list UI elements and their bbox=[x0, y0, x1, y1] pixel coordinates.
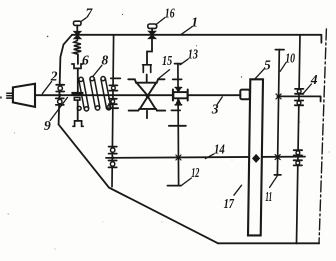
label 15 bbox=[162, 53, 172, 68]
leader of label 11 bbox=[270, 176, 278, 188]
bearing shaft II above shaft IV bbox=[109, 147, 117, 154]
pivot of rod 16 on casing bbox=[148, 31, 155, 38]
knob 7 bbox=[74, 21, 82, 31]
label 10 bbox=[285, 51, 295, 66]
junction shaft IV / shaft II bbox=[111, 156, 114, 159]
bearing shaft II below shaft IV bbox=[109, 161, 117, 168]
svg-text:14: 14 bbox=[214, 142, 225, 157]
bottom tick shaft V bbox=[274, 174, 281, 176]
spring 7 bbox=[74, 39, 82, 54]
tick top shaft III bbox=[175, 63, 182, 65]
bearing shaft VI below shaft IV bbox=[294, 160, 302, 165]
shaft II vertical left bbox=[112, 35, 114, 187]
leader of label 9 bbox=[50, 97, 67, 120]
clutch junction dot bbox=[146, 94, 150, 98]
clutch block on shaft III bbox=[173, 88, 188, 105]
casing top edge bbox=[72, 35, 321, 43]
rod to reverse fork bbox=[77, 100, 79, 121]
bottom tick shaft III bbox=[168, 185, 182, 187]
shaft VI vertical right bbox=[297, 35, 301, 244]
svg-text:10: 10 bbox=[285, 51, 295, 66]
label 4 bbox=[310, 72, 318, 87]
top bar shaft V bbox=[275, 49, 284, 51]
label 17 bbox=[224, 196, 235, 211]
slider block on shaft I bbox=[72, 93, 83, 101]
leader of label 10 bbox=[280, 63, 286, 72]
leader of label 12 bbox=[182, 178, 192, 185]
leader of label 15 bbox=[158, 70, 169, 79]
fork 6 bbox=[72, 64, 83, 68]
junction shaft IV / shaft III bbox=[176, 155, 181, 160]
label 14 bbox=[214, 142, 225, 157]
rod fork 6 to slider bbox=[77, 68, 79, 92]
upper gear line right bbox=[278, 96, 321, 101]
belt link B2 bbox=[90, 77, 100, 111]
label 7 bbox=[86, 6, 94, 21]
svg-text:16: 16 bbox=[165, 5, 175, 20]
svg-text:6: 6 bbox=[82, 53, 89, 68]
bearing shaft VI above shaft IV bbox=[294, 150, 302, 155]
label 12 bbox=[191, 165, 199, 180]
leader of label 2 bbox=[42, 82, 51, 94]
label 9 bbox=[44, 118, 51, 133]
motor M bbox=[6, 84, 35, 107]
label 1 bbox=[191, 14, 198, 29]
svg-text:7: 7 bbox=[86, 6, 94, 21]
junction shaft I / wall bbox=[59, 94, 62, 97]
leader of label 13 bbox=[180, 59, 188, 65]
knob 16 bbox=[148, 24, 157, 31]
shaft V vertical (10/11) bbox=[277, 50, 279, 176]
casing bottom diagonal bbox=[59, 125, 218, 244]
svg-text:12: 12 bbox=[191, 165, 199, 180]
chuck square on shaft III end bbox=[240, 90, 249, 100]
leader of label 3 bbox=[217, 97, 222, 105]
leader of label 8 bbox=[93, 65, 102, 76]
label 16 bbox=[165, 5, 175, 20]
shaft IV lower horizontal bbox=[106, 157, 305, 158]
gear tick top shaft II bbox=[111, 77, 121, 79]
leader of label 4 bbox=[303, 84, 312, 94]
label 6 bbox=[82, 53, 89, 68]
fork 15 bbox=[143, 65, 152, 73]
stem to clutch 15 bbox=[146, 75, 148, 83]
belt link B3 bbox=[101, 77, 111, 110]
leader of label 17 bbox=[234, 185, 242, 195]
leader of label 16 bbox=[156, 18, 165, 25]
sliding nut diamond bbox=[253, 155, 260, 162]
pivot of rod 7 on casing bbox=[74, 31, 81, 38]
svg-text:17: 17 bbox=[224, 196, 235, 211]
svg-text:13: 13 bbox=[188, 47, 198, 62]
label 5 bbox=[264, 57, 271, 72]
gear tick bottom shaft II bbox=[107, 107, 119, 109]
junction shaft V / upper gear line bbox=[276, 94, 281, 99]
bearing shaft VI above gear line bbox=[295, 89, 303, 94]
label 13 bbox=[188, 47, 198, 62]
junction shaft V / shaft IV bbox=[275, 155, 280, 160]
svg-text:5: 5 bbox=[264, 57, 271, 72]
reverse fork bbox=[73, 121, 83, 126]
label 11 bbox=[265, 189, 272, 204]
label 8 bbox=[102, 53, 109, 68]
leader of label 14 bbox=[205, 154, 214, 159]
label 3 bbox=[211, 102, 219, 117]
bearing above shaft I on wall bbox=[56, 85, 64, 92]
bearing shaft II below shaft I bbox=[109, 99, 117, 104]
bearing below shaft I on wall bbox=[56, 98, 64, 105]
faceplate disc 5/17 bbox=[248, 79, 263, 235]
roller below slider bbox=[77, 106, 81, 110]
gear tick shaft III below block bbox=[171, 109, 180, 111]
clutch lower stem bbox=[146, 111, 148, 119]
svg-text:15: 15 bbox=[162, 53, 172, 68]
casing left wall bbox=[59, 35, 72, 125]
casing bottom edge bbox=[218, 242, 319, 244]
friction cone clutch 15 bbox=[128, 79, 165, 110]
svg-text:11: 11 bbox=[265, 189, 272, 204]
gear tick shaft III upper bbox=[173, 78, 182, 80]
label 2 bbox=[50, 69, 58, 84]
leader of label 7 bbox=[81, 18, 86, 22]
bearing shaft VI below gear line bbox=[295, 101, 303, 106]
border dash-dot right bbox=[319, 29, 326, 244]
rod spring to fork 6 bbox=[77, 54, 79, 64]
belt link B1 bbox=[79, 77, 89, 111]
rod 16 with jog bbox=[147, 39, 152, 65]
gear tick shaft III wide bbox=[169, 125, 186, 127]
leader of label 5 bbox=[255, 68, 265, 79]
shaft I (main horizontal) bbox=[35, 94, 240, 96]
bearing shaft II above shaft I bbox=[109, 85, 117, 90]
shaft III vertical centre bbox=[177, 64, 180, 186]
leader of label 1 bbox=[181, 27, 192, 35]
